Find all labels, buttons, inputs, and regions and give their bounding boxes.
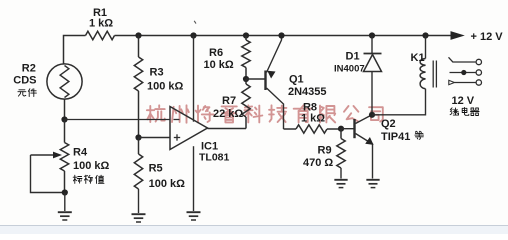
- svg-text:100 kΩ: 100 kΩ: [149, 178, 186, 190]
- svg-text:CDS: CDS: [13, 75, 36, 87]
- svg-text:2N4355: 2N4355: [288, 86, 327, 98]
- label 继电器: [450, 107, 479, 115]
- wire R3 top lead: [138, 36, 140, 58]
- bottom band: [0, 226, 508, 235]
- label R6 value: [204, 59, 234, 71]
- label R4 value: [73, 160, 110, 172]
- wire R4 bottom: [64, 171, 66, 193]
- op-amp U1 TL081: [170, 107, 208, 150]
- wire op-amp V+ pin: [193, 36, 195, 122]
- wire Q2 base: [341, 128, 354, 130]
- label R3: [150, 67, 164, 79]
- relay contact NO: [449, 80, 482, 85]
- svg-text:R2: R2: [22, 62, 36, 74]
- node V+ rail: [190, 32, 196, 38]
- node Q1 base junction: [243, 76, 249, 82]
- label R8: [303, 102, 317, 114]
- wire +12V top rail: [115, 35, 452, 37]
- label R1: [93, 7, 107, 19]
- wire Q1 base: [246, 78, 265, 80]
- wire R5 to ground: [138, 189, 140, 213]
- wire R7 leads: [245, 79, 247, 129]
- wire R6 top lead: [245, 36, 247, 41]
- wire D1 top lead: [371, 36, 373, 54]
- wire K1 top lead: [425, 36, 427, 59]
- label Q2: [381, 118, 396, 130]
- svg-text:1 kΩ: 1 kΩ: [301, 112, 325, 124]
- ground under op-amp: [187, 212, 201, 220]
- label CDS: [13, 75, 36, 87]
- wire op-amp V- pin: [193, 146, 195, 211]
- resistor R2 CDS cell: [47, 64, 82, 99]
- wire R2 top to R1: [64, 36, 86, 65]
- wire R9 top lead: [340, 129, 342, 139]
- label IC1: [201, 140, 218, 152]
- wire R6 bottom lead: [245, 68, 247, 80]
- svg-text:R7: R7: [222, 95, 236, 107]
- svg-text:R9: R9: [318, 144, 332, 156]
- label 标称值: [73, 175, 104, 183]
- svg-text:R5: R5: [149, 163, 163, 175]
- wire R5 top lead: [138, 138, 140, 155]
- resistor R3: [134, 57, 142, 91]
- label 12 V relay: [452, 95, 475, 107]
- label R2: [22, 62, 36, 74]
- node R2/R4 junction: [61, 116, 67, 122]
- svg-text:R4: R4: [73, 146, 88, 158]
- wire R9 to ground: [340, 168, 342, 179]
- label D1: [346, 51, 360, 63]
- relay contact NC: [449, 57, 482, 64]
- node D1 top rail: [369, 32, 375, 38]
- label R3 value: [147, 80, 184, 92]
- label R6: [209, 47, 223, 59]
- node R3 top: [135, 32, 141, 38]
- svg-text:R6: R6: [209, 47, 223, 59]
- wire D1 to collector node: [371, 72, 373, 115]
- ground under R5: [132, 214, 146, 222]
- diode D1 1N4007: [364, 54, 382, 72]
- label R4: [73, 146, 88, 158]
- svg-text:100 kΩ: 100 kΩ: [147, 80, 184, 92]
- label R9: [318, 144, 332, 156]
- label R7: [222, 95, 236, 107]
- svg-text:470 Ω: 470 Ω: [303, 157, 333, 169]
- R4 wiper arm: [31, 152, 65, 193]
- relay coil K1: [420, 59, 436, 89]
- potentiometer R4: [60, 143, 68, 172]
- svg-text:10 kΩ: 10 kΩ: [204, 59, 234, 71]
- wire R2 bottom: [64, 99, 66, 119]
- node Q2 base junction: [338, 126, 344, 132]
- svg-text:12 V: 12 V: [452, 95, 475, 107]
- label K1: [411, 52, 425, 64]
- speck: [194, 21, 196, 24]
- label +12V: [471, 31, 504, 43]
- svg-text:D1: D1: [346, 51, 360, 63]
- transistor Q1 2N4355: [266, 36, 284, 130]
- svg-text:22 kΩ: 22 kΩ: [213, 108, 243, 120]
- op-amp plus sign: [174, 134, 180, 140]
- wire R3 bottom lead: [138, 91, 140, 138]
- wire op-amp output: [208, 128, 247, 130]
- label R9 value: [303, 157, 333, 169]
- resistor R6: [242, 40, 250, 68]
- resistor R5: [134, 154, 142, 189]
- wire R8 right lead: [327, 128, 341, 130]
- label 2N4355: [288, 86, 327, 98]
- op-amp minus sign: [174, 119, 180, 121]
- label R8 value: [301, 112, 325, 124]
- node Q2 collector junction: [369, 112, 375, 118]
- svg-text:IN4007: IN4007: [334, 63, 365, 74]
- ground under R9: [334, 180, 347, 188]
- transistor Q2 TIP41: [355, 115, 374, 179]
- svg-text:Q2: Q2: [381, 118, 396, 130]
- label R1 value: [89, 18, 113, 30]
- ground under R4: [58, 212, 72, 220]
- wire noninverting input: [139, 137, 171, 139]
- svg-text:TIP41: TIP41: [381, 131, 410, 143]
- label TIP41 等: [381, 131, 424, 143]
- svg-text:TL081: TL081: [199, 151, 230, 163]
- label 元件: [18, 89, 37, 97]
- watermark 杭州将睿科技有限公司: [147, 105, 383, 122]
- svg-text:R3: R3: [150, 67, 164, 79]
- svg-text:Q1: Q1: [289, 74, 304, 86]
- wire R8 left lead: [284, 128, 297, 130]
- node K1 top rail: [422, 32, 428, 38]
- ground under Q2 emitter: [366, 180, 379, 188]
- svg-text:K1: K1: [411, 52, 425, 64]
- node Q1 emitter rail: [278, 32, 284, 38]
- resistor R1: [86, 31, 115, 39]
- node R4 bottom: [62, 189, 68, 195]
- label Q1: [289, 74, 304, 86]
- label R5: [149, 163, 163, 175]
- svg-text:100 kΩ: 100 kΩ: [73, 160, 110, 172]
- label IN4007: [334, 63, 365, 74]
- label TL081: [199, 151, 230, 163]
- wire R2 node to R4: [64, 120, 66, 143]
- svg-text:+ 12 V: + 12 V: [471, 31, 504, 43]
- label R7 value: [213, 108, 243, 120]
- relay contact common: [450, 70, 482, 75]
- wire collector node to coil: [372, 89, 426, 115]
- wire R4 to ground: [64, 193, 66, 212]
- wire inverting input: [65, 119, 171, 121]
- arrow +12V supply: [451, 31, 465, 40]
- svg-text:1 kΩ: 1 kΩ: [89, 18, 113, 30]
- node noninverting input: [135, 134, 141, 140]
- node R6 top: [243, 32, 249, 38]
- resistor R9: [337, 139, 345, 169]
- resistor R8: [296, 125, 327, 133]
- resistor R7: [242, 84, 250, 117]
- label R5 value: [149, 178, 186, 190]
